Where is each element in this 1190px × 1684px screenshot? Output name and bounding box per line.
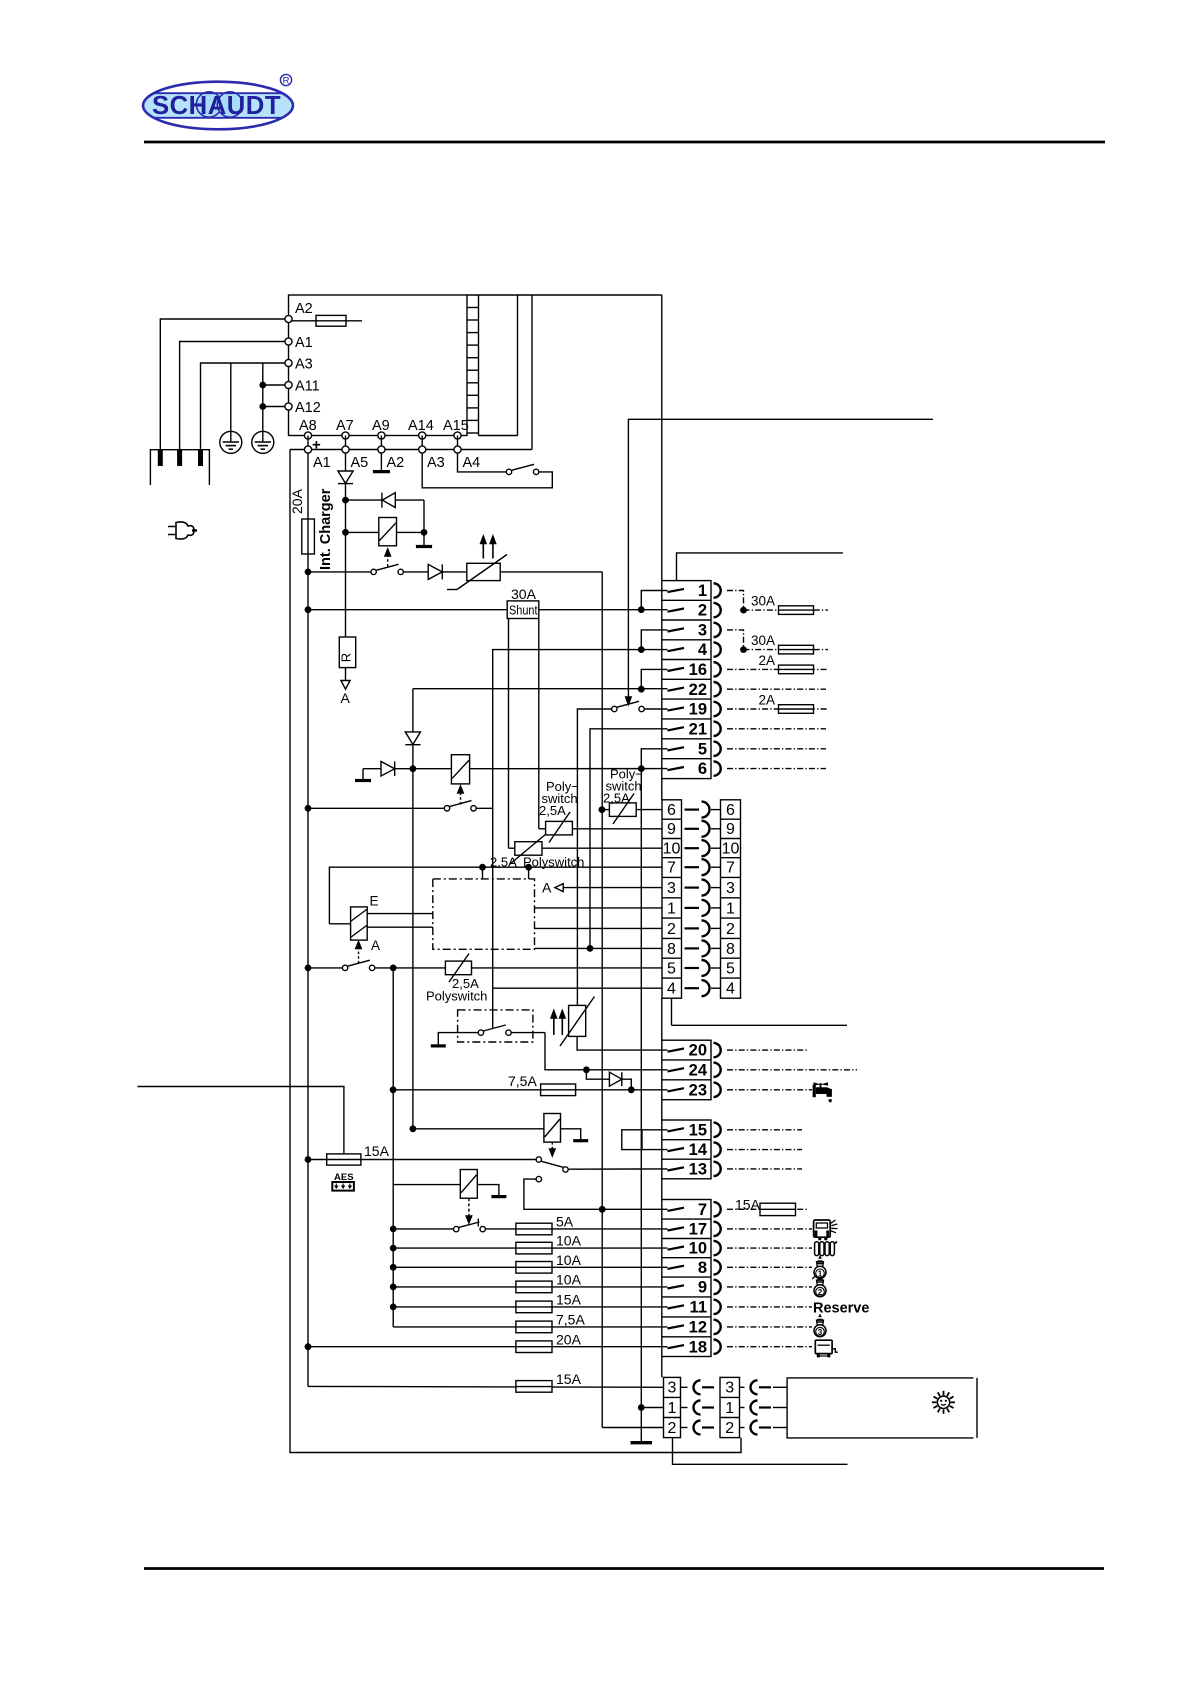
terminal 5 (X1)	[668, 740, 721, 758]
terminal 1 (X1)	[668, 582, 721, 600]
mains plug receptacle	[150, 450, 209, 485]
svg-text:E: E	[370, 894, 379, 909]
net arrow A (from R)	[341, 668, 351, 706]
terminal A12	[285, 400, 321, 416]
wire output 13	[727, 1168, 802, 1170]
wire to terminal 1 drop	[641, 591, 667, 611]
icon water tap (terminal 23)	[813, 1082, 832, 1102]
svg-text:A5: A5	[351, 455, 369, 471]
label polyswitch (pin 6)	[603, 767, 643, 806]
wire A3 / PE to mains plug	[201, 363, 286, 450]
switch S5 (in dash-dot box)	[441, 1025, 545, 1035]
svg-text:2: 2	[725, 1420, 734, 1437]
icon fridge (terminal 17)	[814, 1220, 838, 1239]
wire S5 to terminal 24	[545, 1033, 668, 1073]
svg-text:5A: 5A	[556, 1214, 574, 1230]
svg-text:6: 6	[726, 802, 735, 819]
alternate contact to terminal 7	[524, 1176, 668, 1212]
ground at solar switch	[431, 1033, 446, 1046]
fuse 15A (terminal 11)	[391, 1292, 668, 1313]
terminal A1 (mains N)	[285, 335, 313, 351]
svg-text:15A: 15A	[556, 1371, 582, 1387]
svg-text:3: 3	[668, 1380, 677, 1397]
30A shunt	[305, 586, 667, 619]
wire A1 to mains plug	[180, 342, 285, 450]
svg-text:1: 1	[698, 582, 707, 600]
icon heater (terminal 10)	[815, 1242, 837, 1256]
svg-text:2: 2	[818, 1288, 823, 1297]
external feed wire (left tail)	[138, 1087, 344, 1154]
svg-text:10: 10	[722, 841, 740, 858]
terminal 9 (X4)	[668, 1279, 721, 1297]
svg-text:3: 3	[667, 880, 676, 897]
pin pair 1 (J2)	[667, 900, 735, 917]
svg-text:R: R	[339, 653, 354, 662]
svg-text:A12: A12	[295, 400, 321, 416]
fuse 10A (terminal 9)	[391, 1272, 668, 1293]
svg-text:A11: A11	[295, 379, 320, 395]
lamp connector J3 column 1 (pins 3,1,2)	[664, 1377, 681, 1437]
terminal 10 (X4)	[668, 1240, 721, 1258]
battery + rail (A1/A8 downwards)	[307, 453, 309, 1386]
wire PE to earth 2 / A11 / A12	[262, 363, 264, 431]
terminal A1 (12V)	[304, 436, 330, 472]
terminal A2 (12V)	[378, 436, 404, 472]
icon lamp 2 (terminal 9)	[814, 1280, 826, 1297]
svg-text:5: 5	[726, 960, 735, 977]
fuse 7,5A (terminal 12)	[393, 1312, 667, 1333]
junction fuse output 1/2	[741, 607, 746, 612]
footer rule	[144, 1567, 1104, 1570]
bus column between blocks	[661, 295, 663, 1377]
svg-text:10A: 10A	[556, 1272, 582, 1288]
svg-text:2A: 2A	[758, 653, 775, 668]
svg-text:5: 5	[698, 740, 707, 758]
wire output 15	[727, 1129, 802, 1131]
switch S19 (terminal 19)	[577, 701, 667, 1005]
fuse 15A (interior lamps)	[308, 1371, 664, 1392]
internal connector ladder	[467, 308, 479, 434]
wire J2 pin 4 feed	[493, 987, 662, 989]
pin pair 6 (J2)	[667, 802, 735, 819]
switch S1 between A4 and A3	[422, 453, 552, 488]
svg-text:8: 8	[698, 1259, 707, 1277]
wire output 3 (links to fuse of 4)	[727, 630, 744, 650]
wire to terminal 5 drop	[639, 749, 668, 772]
terminal 20 (X2)	[668, 1042, 721, 1060]
wire battery computer to pin 1 of J2	[535, 907, 663, 909]
vertical rail to relay K4	[412, 769, 414, 1129]
terminal A3 (mains PE)	[285, 357, 313, 373]
relay K3 outputs	[367, 914, 433, 928]
earth symbol 2	[252, 431, 274, 453]
svg-text:A2: A2	[295, 301, 313, 317]
wire PE to earth 1	[230, 363, 232, 431]
relay K3 (E/A latching)	[329, 894, 380, 954]
relay K1 (charger relay)	[343, 500, 427, 546]
wire output 10	[727, 1247, 812, 1249]
svg-text:1: 1	[725, 1400, 734, 1417]
wire output 20	[727, 1049, 808, 1051]
svg-text:3: 3	[726, 880, 735, 897]
wire battery computer to pin 2 of J2	[535, 927, 663, 929]
svg-text:8: 8	[726, 941, 735, 958]
svg-text:10: 10	[663, 841, 681, 858]
svg-text:SCHAUDT: SCHAUDT	[152, 90, 281, 120]
dump regulator (variable element)	[560, 997, 668, 1051]
diode D3 (charge line)	[403, 564, 466, 579]
AES connector symbol	[332, 1182, 354, 1191]
junction fuse output 3/4	[741, 647, 746, 652]
svg-text:15A: 15A	[364, 1143, 390, 1159]
svg-text:2: 2	[698, 602, 707, 620]
diode D2 (freewheel, pointing left)	[343, 493, 424, 508]
svg-text:9: 9	[726, 821, 735, 838]
wire charger output to lamp rail	[601, 572, 603, 1428]
svg-text:A: A	[341, 690, 351, 706]
charge indicator arrows	[481, 536, 496, 559]
label polyswitch (pin 10)	[490, 855, 584, 870]
switch S3 (relay K2 contact)	[305, 801, 492, 811]
svg-text:Reserve: Reserve	[813, 1300, 869, 1316]
wire output 23 (water pump)	[727, 1089, 812, 1091]
terminal A7	[336, 418, 354, 439]
svg-text:A8: A8	[299, 418, 317, 434]
svg-text:10A: 10A	[556, 1252, 582, 1268]
svg-text:22: 22	[689, 681, 707, 699]
charger output rail from A5	[345, 453, 347, 471]
supply rail to lamp connector pin 1	[639, 769, 664, 1411]
terminal block X1 (outputs 1,2,3,4,16,22,19,21,5,6)	[662, 581, 711, 779]
svg-text:Polyswitch: Polyswitch	[426, 989, 487, 1004]
actuating link K1	[385, 549, 391, 567]
fuse 10A (terminal 8)	[391, 1252, 668, 1273]
actuating link K4	[550, 1142, 556, 1156]
terminal A14	[408, 418, 434, 439]
svg-text:15A: 15A	[556, 1292, 582, 1308]
terminal 4 (X1)	[668, 641, 721, 659]
fuse 7,5A (terminal 23 feed)	[390, 1073, 667, 1096]
net A arrow to pin 3 of J2	[542, 880, 662, 896]
switch S2 (charger output)	[305, 564, 403, 574]
svg-text:24: 24	[689, 1061, 708, 1079]
terminal 19 (X1)	[668, 701, 721, 719]
connector J2 right column (pins 6,9,10,7,3,1,2,8,5,4)	[721, 800, 741, 998]
terminal A5	[342, 436, 368, 472]
fuse 2A on output 19	[727, 693, 828, 714]
fuse 5A (terminal 17)	[516, 1214, 668, 1235]
wire lamp rail (charger) to pin 2	[602, 1427, 663, 1429]
label Int. Charger	[318, 488, 334, 570]
battery computer (dash-dot box)	[433, 879, 535, 949]
svg-text:A15: A15	[443, 418, 469, 434]
wire to terminal 16 drop	[639, 669, 668, 692]
terminal 15 (X3)	[668, 1121, 721, 1139]
terminal 2 (X1)	[668, 602, 721, 620]
wire output 12	[727, 1326, 812, 1328]
terminal 11 (X4)	[668, 1299, 721, 1317]
terminal 14 (X3)	[668, 1141, 721, 1159]
ground at terminal A2 (12V)	[373, 453, 390, 472]
fuse 2A on output 16	[727, 653, 828, 674]
wire output 9	[727, 1286, 812, 1288]
label polyswitch (pin 9)	[539, 779, 579, 818]
svg-text:6: 6	[667, 802, 676, 819]
svg-text:3: 3	[698, 622, 707, 640]
diode D1 at A5	[338, 471, 353, 637]
svg-text:2: 2	[667, 921, 676, 938]
terminal A3 (12V)	[419, 436, 445, 472]
terminal 22 (X1)	[668, 681, 721, 699]
terminal block X4 (outputs 7,17,10,8,9,11,12,18)	[662, 1200, 711, 1357]
wire output 22	[727, 688, 826, 690]
fuse 30A on output 4	[744, 633, 829, 654]
terminal A9	[372, 418, 390, 439]
terminal A8 (battery +)	[299, 418, 321, 454]
icon heater unit (terminal 18)	[815, 1340, 838, 1357]
ground at relay K5	[477, 1185, 506, 1197]
svg-text:5: 5	[667, 960, 676, 977]
svg-text:10A: 10A	[556, 1233, 582, 1249]
shunt sense wire 2	[538, 619, 540, 829]
shunt sense wire 1	[508, 619, 510, 849]
polyswitch 2,5A (pin 6 of J2)	[599, 794, 662, 825]
dump indicator arrows	[551, 1011, 565, 1036]
wire A12	[260, 404, 285, 409]
pin pair 2 (J2)	[667, 920, 735, 937]
icon lamp 1 (terminal 8)	[812, 1256, 826, 1279]
actuating link K3	[356, 942, 362, 964]
pin pair 8 (J2)	[667, 940, 735, 957]
svg-text:A3: A3	[427, 455, 445, 471]
terminal 23 (X2)	[668, 1081, 721, 1099]
fuse 30A on output 2	[744, 594, 829, 615]
bridge element terminals 15/14	[622, 1130, 668, 1150]
svg-text:4: 4	[726, 981, 735, 998]
polyswitch 2,5A (pin 5 of J2)	[445, 954, 662, 983]
relay K4	[410, 1114, 560, 1143]
svg-text:16: 16	[689, 661, 707, 679]
wire shunt rail to terminal 4	[493, 650, 668, 989]
actuating link K2	[458, 786, 464, 805]
svg-text:30A: 30A	[751, 594, 775, 609]
fuse 20A (charger input)	[289, 488, 314, 554]
interior lamp unit box	[787, 1378, 977, 1438]
svg-text:13: 13	[689, 1161, 707, 1179]
svg-text:A1: A1	[313, 455, 331, 471]
terminal block X3 (outputs 15,14,13)	[662, 1120, 711, 1179]
terminal 12 (X4)	[668, 1319, 721, 1337]
terminal A4 (12V)	[454, 436, 480, 472]
svg-text:1: 1	[667, 900, 676, 917]
relay K5	[393, 1170, 477, 1199]
pin pair 5 (J2)	[667, 960, 735, 977]
svg-text:A9: A9	[372, 418, 390, 434]
switch S4 (relay K3 contact)	[305, 960, 445, 970]
svg-text:4: 4	[698, 641, 708, 659]
svg-text:23: 23	[689, 1081, 707, 1099]
svg-text:21: 21	[689, 720, 707, 738]
diode D5 (relay K2 line)	[363, 761, 451, 776]
solar switch (dash-dot box)	[458, 1010, 533, 1042]
wire output 11	[727, 1306, 812, 1308]
pin pair 3 (J2)	[667, 880, 735, 897]
wire to terminal 22	[413, 688, 668, 690]
ground at relay K1	[416, 532, 432, 546]
svg-text:9: 9	[698, 1279, 707, 1297]
svg-text:1: 1	[668, 1400, 677, 1417]
wire J2 pin 4 to distribution	[672, 998, 848, 1025]
auxiliary box right of ladder	[479, 295, 518, 436]
ground for relay K2 line	[355, 769, 371, 781]
lamp connector pin pair 2	[668, 1420, 787, 1437]
switch S7 (fridge circuit)	[391, 1219, 516, 1232]
terminal 24 (X2)	[668, 1061, 721, 1079]
svg-text:30A: 30A	[751, 633, 775, 648]
svg-text:20A: 20A	[556, 1331, 582, 1347]
wire output 21	[727, 728, 826, 730]
svg-text:7: 7	[667, 860, 676, 877]
svg-text:A: A	[371, 938, 380, 953]
svg-text:9: 9	[667, 821, 676, 838]
svg-text:7,5A: 7,5A	[556, 1312, 585, 1328]
svg-text:15A: 15A	[735, 1197, 761, 1213]
lamp daisy-chain tail	[673, 1438, 848, 1465]
svg-text:15: 15	[689, 1121, 707, 1139]
wire battery computer to pin 8 of J2	[535, 946, 663, 951]
fuse at A2	[292, 315, 362, 326]
terminal A15	[443, 418, 469, 439]
svg-text:Shunt: Shunt	[509, 603, 538, 618]
svg-text:+: +	[312, 437, 321, 454]
riser from 12V unit to top rail	[531, 295, 533, 450]
wire to terminal 3 drop	[639, 630, 668, 652]
terminal 17 (X4)	[668, 1221, 721, 1239]
svg-text:2,5A: 2,5A	[603, 791, 630, 806]
terminal 7 (X4)	[668, 1201, 721, 1219]
svg-text:2,5A: 2,5A	[539, 803, 566, 818]
pin pair 9 (J2)	[667, 821, 735, 838]
connector J2 left column (pins 6,9,10,7,3,1,2,8,5,4)	[662, 800, 682, 998]
wire output 5	[727, 748, 826, 750]
wire A2 to mains plug	[160, 319, 285, 450]
wire to terminal 21	[590, 729, 668, 949]
terminal 3 (X1)	[668, 622, 721, 640]
svg-text:3: 3	[818, 1328, 823, 1337]
svg-text:4: 4	[667, 981, 676, 998]
pin pair 10 (J2)	[663, 840, 740, 857]
fuse 15A (AES circuit)	[305, 1143, 536, 1165]
svg-text:6: 6	[698, 760, 707, 778]
fuse 10A (terminal 10)	[391, 1233, 668, 1254]
svg-text:19: 19	[689, 701, 707, 719]
load rail (S4 output)	[392, 968, 394, 1327]
lamp connector pin pair 1	[668, 1400, 787, 1417]
lamp (sun) symbol	[932, 1391, 955, 1414]
terminal A2 (mains L)	[285, 301, 313, 323]
svg-text:8: 8	[667, 941, 676, 958]
svg-text:17: 17	[689, 1221, 707, 1239]
terminal 13 (X3)	[668, 1161, 721, 1179]
svg-text:12: 12	[689, 1319, 707, 1337]
svg-text:2: 2	[668, 1420, 677, 1437]
wire output 17	[727, 1228, 812, 1230]
resistor R (electrode sensor)	[339, 637, 356, 668]
fuse 20A (terminal 18)	[305, 1331, 667, 1352]
supply wire to pin 7 of J2 and battery computer	[329, 865, 662, 924]
actuating link K5	[466, 1198, 472, 1223]
wire into solar switch	[492, 988, 494, 1028]
terminal 8 (X4)	[668, 1259, 721, 1277]
svg-text:Int. Charger: Int. Charger	[318, 488, 334, 570]
svg-text:14: 14	[689, 1141, 708, 1159]
mains plug icon	[168, 522, 197, 539]
wire output 1 (links to fuse of 2)	[727, 591, 744, 611]
wire output 24	[727, 1069, 857, 1071]
lamp connector J3 column 2 (pins 3,1,2)	[720, 1377, 740, 1437]
svg-text:R: R	[283, 76, 290, 87]
outer chassis return	[290, 450, 741, 1453]
svg-text:A2: A2	[387, 455, 405, 471]
svg-text:A14: A14	[408, 418, 434, 434]
polyswitch 2,5A (pin 9 of J2)	[539, 812, 662, 843]
pin pair 7 (J2)	[667, 859, 735, 876]
relay K2	[451, 755, 667, 784]
fuse 15A on output 7	[727, 1197, 808, 1216]
diode D6 (24 to 23)	[586, 1070, 634, 1093]
svg-text:10: 10	[689, 1240, 707, 1258]
svg-text:A7: A7	[336, 418, 354, 434]
svg-text:1: 1	[818, 1270, 823, 1279]
svg-text:A1: A1	[295, 335, 313, 351]
terminal 21 (X1)	[668, 720, 721, 738]
ground at relay K4	[561, 1129, 589, 1141]
svg-text:A: A	[542, 880, 552, 896]
svg-text:7: 7	[726, 860, 735, 877]
terminal 6 (X1)	[668, 760, 721, 778]
AES label	[334, 1172, 354, 1183]
svg-text:18: 18	[689, 1338, 707, 1356]
diode D4 (to terminal 22 rail)	[405, 689, 420, 769]
230V unit box	[289, 295, 468, 436]
12V unit top edge	[290, 449, 532, 451]
aux supply rail stub	[677, 553, 843, 581]
svg-text:1: 1	[726, 900, 735, 917]
svg-text:20: 20	[689, 1042, 707, 1060]
SCHAUDT logo	[140, 74, 296, 129]
icon lamp 3 (terminal 12)	[814, 1315, 826, 1337]
svg-text:20A: 20A	[289, 488, 305, 514]
switch S6 (AES changeover)	[536, 1157, 667, 1172]
svg-text:7: 7	[698, 1201, 707, 1219]
wire output 14	[727, 1149, 802, 1151]
svg-text:3: 3	[725, 1380, 734, 1397]
terminal block X2 (outputs 20,24,23)	[662, 1040, 711, 1100]
arrow onto switch S19	[626, 697, 632, 705]
wire A11	[260, 382, 285, 387]
svg-text:11: 11	[690, 1299, 707, 1317]
svg-text:30A: 30A	[511, 586, 537, 602]
label Reserve (terminal 11)	[813, 1300, 869, 1316]
terminal 16 (X1)	[668, 661, 721, 679]
earth symbol 1	[220, 431, 242, 453]
svg-text:A4: A4	[463, 455, 481, 471]
svg-text:A3: A3	[295, 357, 313, 373]
svg-text:2: 2	[726, 921, 735, 938]
terminal A11	[285, 379, 320, 395]
label polyswitch (pin 5)	[426, 976, 487, 1004]
svg-text:7,5A: 7,5A	[508, 1073, 537, 1089]
